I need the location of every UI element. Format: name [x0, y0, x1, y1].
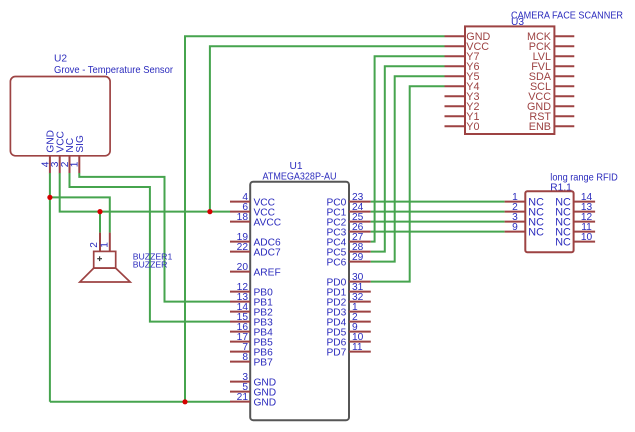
wire ground rail to U1 pin21 GND: [50, 401, 230, 403]
U3 left pin Y5 stub: [445, 75, 466, 77]
U1 pin 4 VCC stub: [230, 201, 250, 203]
U1 pin 9 PD5 stub: [349, 331, 371, 333]
U1 pin 1 PD3 stub: [349, 311, 371, 313]
svg-text:BUZZER: BUZZER: [133, 260, 168, 270]
U1 pin 7 PB6 stub: [230, 351, 250, 353]
wire U1 PC1 pin24 to RFID pin2: [371, 211, 505, 213]
svg-text:ADC7: ADC7: [254, 247, 282, 258]
U1 pin 5 GND stub: [230, 391, 250, 393]
U3 left pin GND stub: [445, 35, 466, 37]
ic U3 body: [465, 26, 554, 134]
U3 right pin MCK stub: [554, 35, 574, 37]
svg-text:PB7: PB7: [254, 357, 274, 368]
wire U1 PC6 pin29 to U3 Y5: [371, 76, 445, 261]
junction buzzer pin2 / VCC rail: [97, 209, 102, 214]
wire U2 SIG pin1 to U1 PB1 pin13: [79, 173, 230, 302]
buzzer label BUZZER1 BUZZER: [133, 251, 173, 269]
wire buzzer pin 2 up to VCC rail: [99, 212, 101, 233]
U3 left pin VCC stub: [445, 45, 466, 47]
svg-text:GND: GND: [254, 397, 277, 408]
svg-text:SIG: SIG: [75, 135, 86, 153]
svg-text:29: 29: [352, 252, 364, 263]
svg-text:Y0: Y0: [466, 121, 479, 133]
ic U1 body: [250, 182, 349, 421]
RFID pin 3 stub: [505, 221, 526, 223]
buzzer pin 2 stub: [99, 233, 101, 252]
wire U1 PD0 pin30 to U3 Y4: [371, 86, 445, 281]
junction GND rail / U3 riser: [182, 399, 187, 404]
svg-text:AVCC: AVCC: [254, 217, 282, 228]
svg-text:10: 10: [581, 232, 593, 243]
buzzer BUZZER1 speaker symbol: [80, 251, 130, 282]
U1 pin 13 PB1 stub: [230, 301, 250, 303]
svg-text:20: 20: [237, 262, 249, 273]
U1 pin 8 PB7 stub: [230, 361, 250, 363]
U3 right pin PCK stub: [554, 45, 574, 47]
U1 pin 6 VCC stub: [230, 211, 250, 213]
wire U1 PC5 pin28 to U3 Y6: [371, 66, 445, 251]
U1 pin 26 PC3 stub: [349, 231, 371, 233]
U3 right pin ENB stub: [554, 125, 574, 127]
wire branch D1 to buzzer pin 1: [50, 197, 110, 232]
RFID pin 2 stub: [505, 211, 526, 213]
RFID pin 13 stub (right): [574, 211, 596, 213]
U1 pin 19 ADC6 stub: [230, 241, 250, 243]
U1 pin 12 PB0 stub: [230, 291, 250, 293]
U1 pin 15 PB3 stub: [230, 321, 250, 323]
U3 right pin FVL stub: [554, 65, 574, 67]
U3 right pin LVL stub: [554, 55, 574, 57]
U3 left pin Y2 stub: [445, 105, 466, 107]
U1 pin 30 PD0 stub: [349, 281, 371, 283]
RFID pin 1 stub: [505, 201, 526, 203]
U1 pin 23 PC0 stub: [349, 201, 371, 203]
svg-text:9: 9: [512, 222, 518, 233]
svg-text:U2: U2: [54, 54, 67, 65]
svg-text:PC6: PC6: [326, 257, 346, 268]
wire U2 GND pin4 down to ground rail: [49, 173, 51, 402]
U1 pin 17 PB5 stub: [230, 341, 250, 343]
wire GND rail up to U3 GND: [185, 36, 445, 402]
U1 pin 18 AVCC stub: [230, 221, 250, 223]
wire U1 PC3 pin26 to RFID pin9: [371, 231, 505, 233]
U1 pin 21 GND stub: [230, 401, 250, 403]
RFID pin 14 stub (right): [574, 201, 596, 203]
ic R1.1 body: [525, 191, 573, 252]
U1 pin 29 PC6 stub: [349, 261, 371, 263]
junction U2-GND / buzzer1 branch: [47, 195, 52, 200]
U2 pin 3 VCC stub: [59, 156, 61, 173]
svg-text:21: 21: [237, 392, 249, 403]
svg-text:18: 18: [237, 212, 249, 223]
U1 pin 16 PB4 stub: [230, 331, 250, 333]
U3 right pin VCC stub: [554, 95, 574, 97]
U3 left pin Y0 stub: [445, 125, 466, 127]
junction VCC rail / U3 riser: [207, 209, 212, 214]
wire U1 PC4 pin27 to U3 Y7: [371, 56, 445, 241]
U2 pin 1 SIG stub: [78, 156, 80, 173]
U1 pin 32 PD2 stub: [349, 301, 371, 303]
svg-text:2: 2: [89, 242, 100, 248]
wire U2 NC pin2 to U1 PB3 pin15: [70, 173, 231, 322]
RFID pin 10 stub (right): [574, 241, 596, 243]
U1 pin 10 PD6 stub: [349, 341, 371, 343]
wire U2 VCC pin3 down: [60, 173, 230, 212]
sensor U2 body: [10, 77, 110, 156]
svg-text:11: 11: [352, 342, 363, 353]
RFID pin 9 stub: [505, 231, 526, 233]
svg-text:1: 1: [99, 242, 110, 248]
U3 left pin Y7 stub: [445, 55, 466, 57]
U2 pin 4 GND stub: [49, 156, 51, 173]
U3 right pin GND stub: [554, 105, 574, 107]
buzzer plus sign: [97, 256, 102, 261]
U3 left pin Y6 stub: [445, 65, 466, 67]
svg-text:22: 22: [237, 242, 249, 253]
wire U1 PC0 pin23 to RFID pin1: [371, 201, 505, 203]
U3 right pin RST stub: [554, 115, 574, 117]
U1 pin 31 PD1 stub: [349, 291, 371, 293]
part label R1.1 long range RFID: [550, 173, 618, 194]
buzzer pin 1 stub: [109, 233, 111, 252]
svg-text:ENB: ENB: [529, 121, 551, 133]
U1 pin 3 GND stub: [230, 381, 250, 383]
U3 right pin SCL stub: [554, 85, 574, 87]
svg-text:NC: NC: [528, 226, 544, 238]
svg-text:AREF: AREF: [254, 267, 281, 278]
U1 pin 2 PD4 stub: [349, 321, 371, 323]
U3 left pin Y1 stub: [445, 115, 466, 117]
U2 pin 2 NC stub: [69, 156, 71, 173]
svg-text:1: 1: [70, 161, 81, 167]
svg-text:U1: U1: [289, 161, 302, 172]
U1 pin 27 PC4 stub: [349, 241, 371, 243]
U1 pin 11 PD7 stub: [349, 351, 371, 353]
U3 left pin Y3 stub: [445, 95, 466, 97]
U1 pin 20 AREF stub: [230, 271, 250, 273]
part label U3 CAMERA FACE SCANNER: [511, 10, 623, 28]
part label U1 ATMEGA328P-AU: [263, 161, 337, 183]
svg-text:8: 8: [242, 352, 248, 363]
U1 pin 24 PC1 stub: [349, 211, 371, 213]
U1 pin 14 PB2 stub: [230, 311, 250, 313]
svg-text:PD7: PD7: [326, 347, 346, 358]
part label U2 Grove - Temperature Sensor: [54, 54, 174, 77]
U1 pin 22 ADC7 stub: [230, 251, 250, 253]
wire U1 PC2 pin25 to RFID pin3: [371, 221, 505, 223]
RFID pin 11 stub (right): [574, 231, 596, 233]
svg-text:CAMERA FACE SCANNER: CAMERA FACE SCANNER: [511, 10, 623, 21]
U3 left pin Y4 stub: [445, 85, 466, 87]
U3 right pin SDA stub: [554, 75, 574, 77]
svg-text:Grove - Temperature Sensor: Grove - Temperature Sensor: [54, 65, 174, 76]
U1 pin 28 PC5 stub: [349, 251, 371, 253]
RFID pin 12 stub (right): [574, 221, 596, 223]
svg-text:NC: NC: [555, 236, 571, 248]
U1 pin 25 PC2 stub: [349, 221, 371, 223]
wire VCC rail up to U3 VCC: [210, 46, 445, 211]
